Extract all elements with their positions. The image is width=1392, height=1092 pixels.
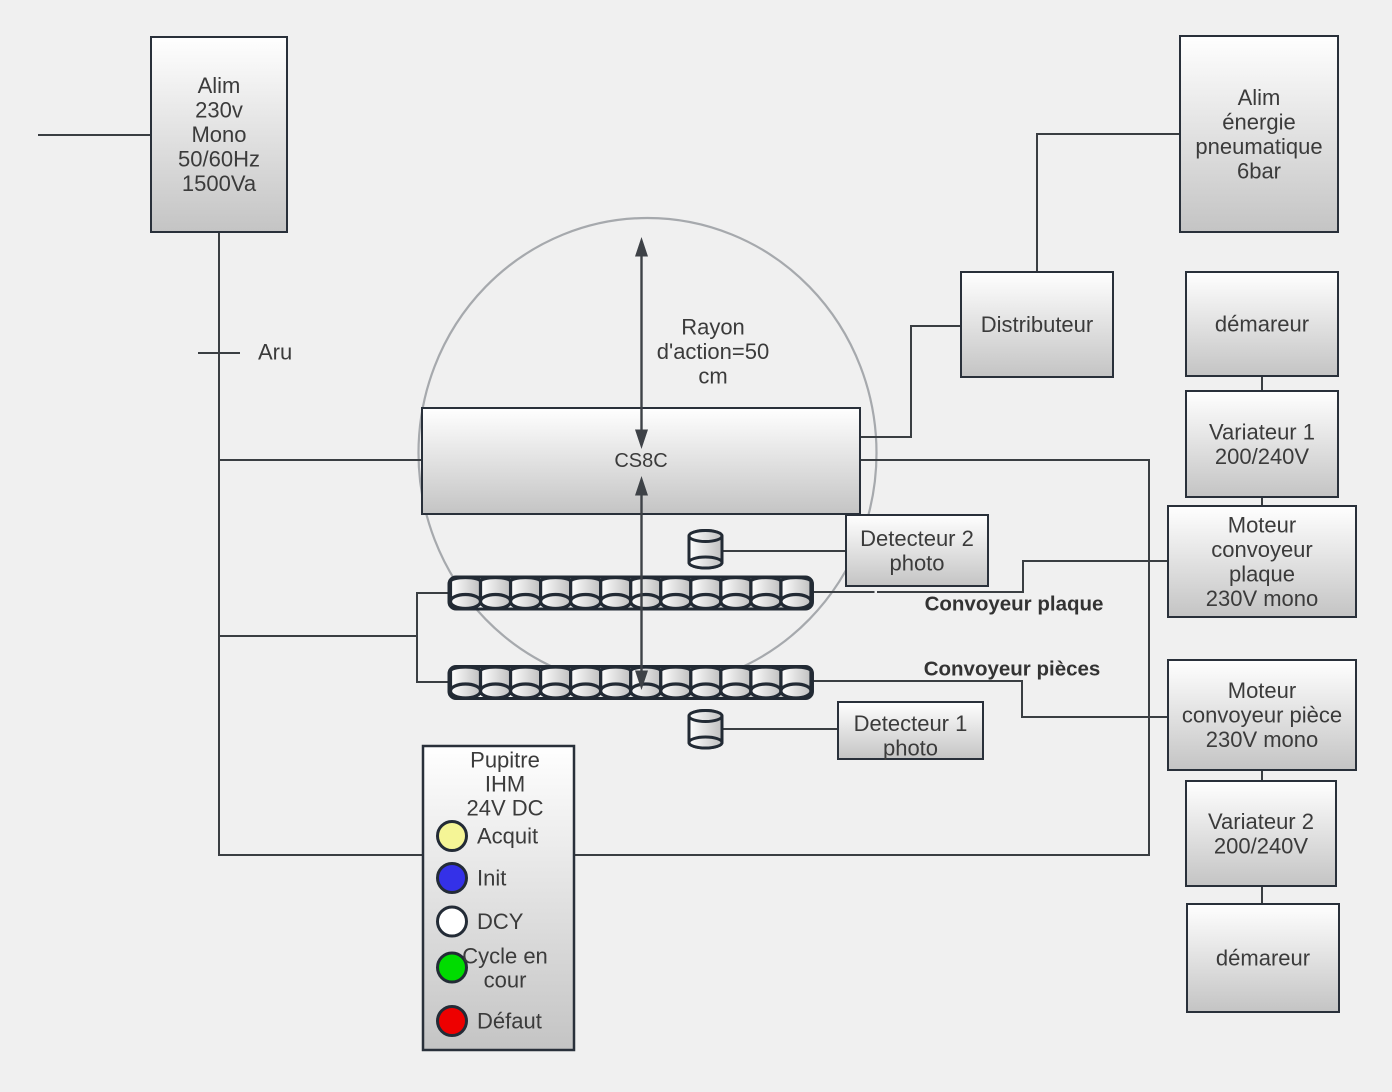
- lamp Cycle en cour: [438, 944, 548, 993]
- svg-text:Detecteur 2: Detecteur 2: [860, 526, 974, 551]
- wire Aru disconnect tick: [198, 352, 240, 354]
- svg-text:convoyeur pièce: convoyeur pièce: [1182, 703, 1342, 728]
- wire demareur1 to Variateur1: [1261, 376, 1263, 391]
- svg-text:Acquit: Acquit: [477, 824, 538, 849]
- box Alim energie pneumatique: [1180, 36, 1338, 232]
- box demareur 2: [1187, 904, 1339, 1012]
- svg-text:Rayon: Rayon: [681, 315, 745, 340]
- conveyor plaque rollers: [449, 577, 812, 609]
- svg-text:Convoyeur plaque: Convoyeur plaque: [925, 593, 1104, 616]
- wire conveyor bracket: [417, 593, 450, 682]
- wire detecteur1 sensor to box: [723, 728, 838, 730]
- svg-text:photo: photo: [883, 735, 938, 760]
- svg-text:230V mono: 230V mono: [1206, 586, 1319, 611]
- wire Moteur piece to Variateur2: [1261, 770, 1263, 781]
- svg-text:Défaut: Défaut: [477, 1009, 542, 1034]
- svg-text:50/60Hz: 50/60Hz: [178, 147, 260, 172]
- lamp Init: [438, 864, 507, 893]
- wire joint gap on plaque wire: [875, 591, 878, 594]
- svg-text:1500Va: 1500Va: [182, 171, 257, 196]
- svg-text:DCY: DCY: [477, 909, 524, 934]
- lamp Acquit: [438, 822, 539, 851]
- sensor cylinder detecteur 2: [689, 531, 722, 569]
- svg-text:230v: 230v: [195, 98, 243, 123]
- wire conveyors supply from bus: [219, 635, 417, 637]
- svg-text:Variateur 1: Variateur 1: [1209, 419, 1315, 444]
- box demareur 1: [1186, 272, 1338, 376]
- svg-text:Moteur: Moteur: [1228, 512, 1296, 537]
- svg-text:Moteur: Moteur: [1228, 678, 1296, 703]
- wire convoyeur pieces to Moteur piece: [811, 681, 1168, 717]
- arrow radius upper: [635, 237, 648, 449]
- svg-text:Init: Init: [477, 866, 506, 891]
- wire Variateur2 to demareur2: [1261, 886, 1263, 904]
- box Variateur 1: [1186, 391, 1338, 497]
- svg-text:Pupitre: Pupitre: [470, 748, 540, 773]
- svg-text:Detecteur 1: Detecteur 1: [854, 711, 968, 736]
- svg-text:plaque: plaque: [1229, 561, 1295, 586]
- svg-text:cour: cour: [484, 968, 527, 993]
- svg-text:Cycle en: Cycle en: [462, 944, 548, 969]
- wire Alim pneumatique to Distributeur: [1037, 134, 1180, 272]
- wire main 230V bus: Alim down, across to Pupitre, up to CS8C right: [219, 232, 1149, 855]
- svg-text:photo: photo: [889, 550, 944, 575]
- svg-text:démareur: démareur: [1216, 946, 1310, 971]
- arrow radius lower: [635, 476, 648, 690]
- box Detecteur 1 photo: [838, 702, 983, 760]
- svg-text:6bar: 6bar: [1237, 158, 1281, 183]
- svg-text:230V mono: 230V mono: [1206, 727, 1319, 752]
- box Variateur 2: [1186, 781, 1336, 886]
- svg-text:200/240V: 200/240V: [1214, 833, 1309, 858]
- wire detecteur2 sensor to box: [722, 550, 846, 552]
- svg-text:CS8C: CS8C: [614, 450, 667, 472]
- wire CS8C to Distributeur: [860, 326, 961, 437]
- sensor cylinder detecteur 1: [689, 711, 722, 749]
- box CS8C robot controller: [422, 408, 860, 514]
- box Moteur convoyeur piece: [1168, 660, 1356, 770]
- lamp DCY: [438, 907, 524, 936]
- svg-text:pneumatique: pneumatique: [1195, 134, 1322, 159]
- lamp Defaut: [438, 1007, 542, 1036]
- svg-text:démareur: démareur: [1215, 312, 1309, 337]
- svg-text:24V DC: 24V DC: [466, 796, 543, 821]
- box Alim 230v: [151, 37, 287, 232]
- box Moteur convoyeur plaque: [1168, 506, 1356, 617]
- svg-text:d'action=50: d'action=50: [657, 339, 769, 364]
- svg-text:cm: cm: [698, 364, 727, 389]
- svg-text:Distributeur: Distributeur: [981, 312, 1093, 337]
- conveyor pieces rollers: [449, 667, 812, 699]
- box Pupitre IHM: [423, 746, 574, 1050]
- svg-text:Alim: Alim: [198, 73, 241, 98]
- svg-text:Aru: Aru: [258, 340, 292, 365]
- wire Variateur1 to Moteur plaque: [1261, 497, 1263, 506]
- svg-text:Alim: Alim: [1238, 85, 1281, 110]
- box Detecteur 2 photo: [846, 515, 988, 586]
- wire mains feed to Alim: [38, 134, 151, 136]
- wire convoyeur plaque to Moteur plaque: [811, 561, 1168, 592]
- box Distributeur: [961, 272, 1113, 377]
- svg-text:200/240V: 200/240V: [1215, 444, 1310, 469]
- svg-text:énergie: énergie: [1222, 109, 1295, 134]
- svg-text:Mono: Mono: [191, 122, 246, 147]
- svg-text:convoyeur: convoyeur: [1211, 537, 1313, 562]
- svg-text:IHM: IHM: [485, 772, 525, 797]
- svg-text:Convoyeur pièces: Convoyeur pièces: [924, 658, 1101, 681]
- svg-text:Variateur 2: Variateur 2: [1208, 809, 1314, 834]
- wire CS8C supply from bus: [219, 459, 422, 461]
- robot action radius circle: [419, 218, 877, 688]
